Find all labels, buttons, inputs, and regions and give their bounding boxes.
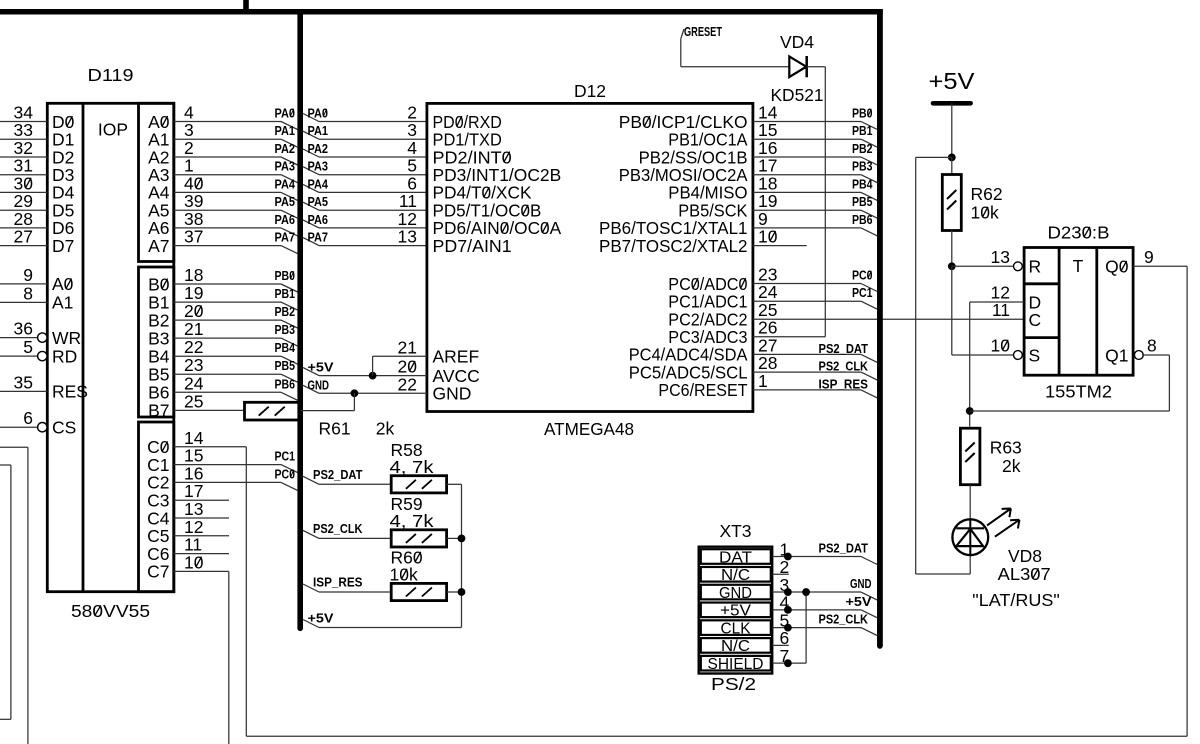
wire top +5V bus stub [243, 0, 249, 12]
bus exit PA1 right [303, 131, 319, 139]
chip D230 divider right [1095, 248, 1098, 376]
wire D119 pin 37 A7 [174, 245, 281, 247]
bus exit PA6 right [303, 220, 319, 228]
svg-text:PA1: PA1 [308, 123, 329, 138]
wire W1 vertical [27, 447, 29, 744]
bus exit PA4 right [303, 184, 319, 192]
svg-text:PB6: PB6 [852, 212, 873, 227]
svg-text:PS2_CLK: PS2_CLK [819, 612, 869, 627]
wire W2 horizontal top [0, 464, 11, 466]
svg-text:9: 9 [1144, 247, 1154, 267]
svg-text:A7: A7 [148, 236, 169, 256]
wire D12 PB0 [753, 121, 861, 123]
wire D119 pin 35 RES [0, 390, 47, 392]
resistor R62 [942, 175, 961, 231]
node junction D/Q1/R63 [966, 407, 974, 415]
svg-text:+5V: +5V [846, 594, 872, 609]
resistor R60 [391, 583, 446, 600]
wire XT3 pin 2 stub [772, 573, 789, 575]
wire D119 C3 stub [174, 499, 229, 501]
wire D119 pin 6 CS [0, 426, 38, 428]
svg-text:RD: RD [52, 346, 77, 366]
svg-text:PB1: PB1 [275, 286, 296, 301]
svg-text:CS: CS [52, 418, 76, 438]
wire +5V to R62 top [951, 157, 953, 175]
wire to D12 pin PD4 [319, 191, 427, 193]
inversion bubble Q1 pin [1134, 351, 1143, 360]
wire D12 PB7 stub [753, 245, 807, 247]
wire D119 C7 horizontal [174, 570, 229, 572]
wire D12 PC3 horizontal [753, 336, 825, 338]
LED VD8 cathode bar [956, 527, 984, 529]
svg-text:N/C: N/C [721, 638, 750, 655]
bus exit PS2_DAT [303, 476, 319, 484]
bus entry A0 [281, 122, 298, 130]
svg-text:+5V: +5V [308, 611, 334, 626]
node pin 1 [784, 553, 792, 561]
bus exit PA2 right [303, 149, 319, 157]
connector XT3 cell +5V [701, 603, 771, 618]
svg-text:PA5: PA5 [275, 194, 296, 209]
wire R62 bottom [951, 230, 953, 266]
svg-text:GND: GND [850, 576, 872, 591]
svg-text:22: 22 [184, 337, 203, 357]
inversion bubble S pin [1014, 351, 1023, 360]
wire XT3 pin 7 SHIELD [772, 662, 806, 664]
bus entry ISP_RES [861, 390, 877, 398]
svg-text:20: 20 [184, 301, 204, 321]
bus entry PS2_DAT [861, 354, 877, 362]
svg-text:PS2_DAT: PS2_DAT [819, 541, 869, 556]
svg-text:PA4: PA4 [275, 176, 296, 191]
svg-text:B0: B0 [148, 274, 170, 294]
wire to D12 pin PD5 [319, 209, 427, 211]
wire D119 pin 9 A0 [0, 283, 47, 285]
node pin 5 [784, 624, 792, 632]
svg-text:WR: WR [52, 328, 81, 348]
bus entry PB4 [861, 192, 877, 200]
wire D119 pin 5 RD [0, 355, 38, 357]
bus entry B1 [281, 302, 298, 310]
svg-text:B2: B2 [148, 310, 169, 330]
connector XT3 cell GND [701, 585, 771, 600]
connector XT3 cell N/C [701, 638, 771, 653]
wire D119 pin 23 B5 [174, 373, 281, 375]
svg-text:11: 11 [992, 300, 1010, 320]
svg-text:22: 22 [398, 374, 417, 394]
wire +5V to AVCC pin 20 [319, 375, 427, 377]
bus exit GND [303, 385, 319, 393]
svg-text:IOP: IOP [98, 120, 128, 140]
wire D119 pin 27 D7 [0, 245, 47, 247]
bus entry B2 [281, 320, 298, 328]
bus entry C1/PC1 [281, 465, 298, 473]
bus entry PC0 [861, 284, 877, 292]
bus exit +5V bottom [303, 620, 319, 628]
svg-text:C: C [1029, 310, 1042, 330]
LED VD8 vertical lead [969, 519, 971, 555]
svg-text:4, 7k: 4, 7k [390, 457, 434, 477]
wire D119 pin 32 D2 [0, 156, 47, 158]
svg-text:27: 27 [14, 227, 33, 247]
wire R60 right lead [447, 591, 462, 593]
svg-text:B6: B6 [148, 383, 169, 403]
svg-text:1: 1 [758, 371, 768, 391]
wire XT3 pin 6 stub [772, 644, 789, 646]
svg-text:4, 7k: 4, 7k [390, 511, 434, 531]
wire R61 right lead under bus [299, 410, 354, 412]
wire PC3 vertical to VD4 [824, 67, 826, 337]
bus entry PB3 [861, 175, 877, 183]
wire left branch vertical down [915, 157, 917, 574]
svg-text:PB7/TOSC2/XTAL2: PB7/TOSC2/XTAL2 [599, 236, 748, 256]
bus entry B3 [281, 338, 298, 346]
svg-text:PA6: PA6 [275, 212, 296, 227]
wire GRESET leader slant [681, 29, 684, 39]
svg-text:PB5: PB5 [852, 194, 873, 209]
chip D119 internal divider [82, 103, 85, 591]
svg-text:24: 24 [184, 373, 204, 393]
wire XT3 pin 1 [772, 556, 861, 558]
wire D119 C7 vertical to bottom [228, 571, 230, 744]
wire D12 PB5 [753, 209, 861, 211]
chip D230 divider left [1058, 248, 1061, 376]
wire D119 pin 33 D1 [0, 138, 47, 140]
bus entry PB1 [861, 139, 877, 147]
svg-text:2k: 2k [376, 419, 395, 439]
inversion bubble WR [38, 333, 47, 342]
wire D119 pin 31 D3 [0, 174, 47, 176]
bus exit +5V [303, 368, 319, 376]
wire D119 C6 stub [174, 553, 229, 555]
wire ISP_RES to R60 [319, 591, 391, 593]
bus entry PS2_CLK [861, 372, 877, 380]
bus entry A7 [281, 246, 298, 254]
svg-text:D7: D7 [52, 236, 74, 256]
diode VD4 cathode bar [805, 56, 808, 77]
svg-text:VD8: VD8 [1008, 546, 1042, 566]
svg-text:PA4: PA4 [308, 176, 329, 191]
svg-text:D230:B: D230:B [1048, 223, 1110, 243]
wire XT3 pin 4 [772, 609, 861, 611]
wire Q0 vertical down [1186, 266, 1188, 736]
bus entry PB2 [861, 157, 877, 165]
svg-text:ATMEGA48: ATMEGA48 [544, 419, 634, 439]
inversion bubble R pin [1014, 262, 1023, 271]
wire R63 to LED [969, 485, 971, 520]
svg-text:B5: B5 [148, 365, 169, 385]
wire D119 C4 stub [174, 517, 229, 519]
svg-text:GND: GND [308, 377, 330, 392]
wire W1 horizontal [0, 446, 28, 448]
wire D119 pin 19 B1 [174, 301, 281, 303]
wire PS2_DAT to R58 [319, 483, 391, 485]
wire Q1 vertical [1168, 355, 1170, 411]
svg-text:R: R [1029, 257, 1042, 277]
svg-text:PC1: PC1 [275, 449, 296, 464]
wire to D12 pin PD1 [319, 138, 427, 140]
wire D119 pin 3 A1 [174, 138, 281, 140]
wire to R pin bubble [952, 265, 1014, 267]
LED arrow 1 [987, 509, 1011, 526]
wire D119 pin 22 B4 [174, 355, 281, 357]
wire D119 pin 28 D6 [0, 227, 47, 229]
wire D12 PC4/ADC4/SDA [753, 353, 861, 355]
wire to D12 pin PD7 [319, 245, 427, 247]
svg-text:PB4: PB4 [852, 176, 873, 191]
svg-text:19: 19 [184, 283, 203, 303]
svg-text:PC1: PC1 [852, 285, 873, 300]
svg-text:RES: RES [52, 382, 88, 402]
svg-text:PB4: PB4 [275, 340, 296, 355]
svg-text:2k: 2k [1002, 456, 1021, 476]
node pin 3 [784, 588, 792, 596]
wire XT3 pin 5 [772, 627, 861, 629]
svg-text:21: 21 [398, 337, 417, 357]
bus entry PB0 [861, 122, 877, 130]
wire D119 pin 25 B7 to R61 [174, 409, 245, 411]
resistor R59 [391, 530, 446, 547]
bus entry PB6 [861, 228, 877, 236]
node junction rail/R60 [458, 588, 466, 596]
wire D119 pin 38 A6 [174, 227, 281, 229]
wire D119 pin 39 A5 [174, 209, 281, 211]
bus vertical line 2 [877, 9, 883, 646]
wire rail bottom to +5V [319, 627, 462, 629]
svg-text:Q1: Q1 [1105, 345, 1128, 365]
wire D12 PC5/ADC5/SCL [753, 371, 861, 373]
connector XT3 cell CLK [701, 620, 771, 635]
wire junction up to AREF row [372, 356, 374, 375]
chip D230:B outline [1024, 248, 1133, 376]
bus exit PA7 right [303, 238, 319, 246]
svg-text:"LAT/RUS": "LAT/RUS" [972, 590, 1060, 610]
wire D119 pin 8 A1 [0, 301, 47, 303]
wire VD4 cathode to corner [807, 66, 826, 68]
svg-text:PS2_CLK: PS2_CLK [313, 521, 363, 536]
svg-text:GND: GND [719, 585, 752, 602]
wire LED bottom lead [969, 555, 971, 574]
wire to D12 pin PD6 [319, 227, 427, 229]
wire XT3 pin 3 [772, 591, 861, 593]
wire D12 PB3 [753, 174, 861, 176]
bus entry B5 [281, 374, 298, 382]
wire D119 pin 4 A0 [174, 121, 281, 123]
svg-text:PC6/RESET: PC6/RESET [658, 380, 747, 400]
svg-text:PB6: PB6 [275, 376, 296, 391]
wire D119 C5 stub [174, 535, 229, 537]
bus entry +5V from XT3 [861, 610, 877, 618]
svg-text:PA7: PA7 [308, 230, 329, 245]
svg-text:PS2_DAT: PS2_DAT [819, 341, 869, 356]
LED arrow 2 [995, 520, 1020, 537]
svg-text:6: 6 [23, 408, 33, 428]
wire AREF pin 21 [373, 355, 427, 357]
svg-text:13: 13 [991, 247, 1010, 267]
svg-text:ISP_RES: ISP_RES [313, 575, 363, 590]
svg-text:ISP_RES: ISP_RES [819, 376, 869, 391]
node pin 7 [784, 659, 792, 667]
node junction +5V [948, 154, 956, 162]
bus entry B4 [281, 356, 298, 364]
wire D12 PC2 to D230 C pin [753, 318, 1024, 320]
node junction GND/R61 [351, 389, 359, 397]
wire D119 pin 34 D0 [0, 121, 47, 123]
wire D119 C0 vertical down [245, 447, 247, 736]
svg-text:DAT: DAT [719, 549, 752, 566]
wire to S pin bubble [952, 354, 1014, 356]
svg-text:PA7: PA7 [275, 230, 296, 245]
wire bottom horizontal C0 to Q0 [246, 735, 1187, 737]
svg-text:Q0: Q0 [1105, 257, 1129, 277]
svg-text:D119: D119 [88, 65, 134, 85]
diode VD4 triangle [789, 56, 806, 77]
svg-text:PA2: PA2 [308, 141, 329, 156]
svg-text:VD4: VD4 [780, 32, 814, 52]
node junction rail/R59 [458, 535, 466, 543]
svg-text:PB5: PB5 [275, 358, 296, 373]
svg-text:PA5: PA5 [308, 194, 329, 209]
svg-text:PS/2: PS/2 [711, 674, 756, 694]
wire D119 pin 24 B6 [174, 391, 281, 393]
wire D12 PB1 [753, 138, 861, 140]
svg-text:R62: R62 [971, 184, 1003, 204]
wire D119 pin 29 D5 [0, 209, 47, 211]
svg-text:S: S [1029, 345, 1041, 365]
svg-text:+5V: +5V [929, 68, 976, 94]
wire R58 right lead [447, 483, 462, 485]
svg-text:+5V: +5V [720, 603, 751, 620]
svg-text:KD521: KD521 [771, 85, 824, 105]
wire D119 C1 [174, 464, 281, 466]
wire R61 up to GND junction [353, 393, 355, 410]
svg-text:9: 9 [23, 265, 33, 285]
svg-text:13: 13 [398, 227, 417, 247]
wire D feedback vertical [969, 302, 971, 427]
wire D119 pin 40 A4 [174, 191, 281, 193]
wire D119 pin 30 D4 [0, 191, 47, 193]
connector XT3 cell DAT [701, 549, 771, 564]
wire R62 junction down to S row [951, 266, 953, 355]
bus entry A1 [281, 139, 298, 147]
svg-text:C7: C7 [147, 562, 169, 582]
svg-text:10: 10 [758, 227, 778, 247]
wire Q1 out [1143, 354, 1169, 356]
svg-text:PB3: PB3 [275, 322, 296, 337]
wire PS2_CLK to R59 [319, 537, 391, 539]
wire GRESET to VD4 anode [681, 66, 790, 68]
svg-text:PB1: PB1 [852, 123, 873, 138]
node junction AREF/AVCC [369, 372, 377, 380]
svg-text:AL307: AL307 [998, 564, 1051, 584]
wire D12 PC0/ADC0 [753, 283, 861, 285]
wire D12 PB4 [753, 191, 861, 193]
svg-text:N/C: N/C [721, 567, 750, 584]
svg-text:B7: B7 [148, 401, 169, 421]
wire SHIELD to GND vertical [805, 592, 807, 663]
svg-text:PA6: PA6 [308, 212, 329, 227]
wire D119 pin 1 A3 [174, 174, 281, 176]
svg-text:B4: B4 [148, 347, 170, 367]
svg-text:AREF: AREF [433, 347, 480, 367]
svg-text:580VV55: 580VV55 [71, 601, 150, 621]
bus exit ISP_RES [303, 584, 319, 592]
svg-text:23: 23 [184, 355, 203, 375]
wire GND to pin 22 [319, 392, 427, 394]
wire R59 right lead [447, 537, 462, 539]
wire W2 vertical [10, 465, 12, 719]
svg-text:37: 37 [184, 227, 203, 247]
svg-text:A1: A1 [52, 293, 73, 313]
bus entry A5 [281, 210, 298, 218]
svg-text:CLK: CLK [721, 620, 751, 637]
connector XT3 outline [699, 547, 773, 674]
bus exit PA5 right [303, 202, 319, 210]
bus entry B6 [281, 392, 298, 400]
bus entry PS2_CLK from XT3 [861, 628, 877, 636]
bus entry C2/PC0 [281, 482, 298, 490]
resistor R61 [245, 402, 300, 420]
bus exit PS2_CLK [303, 530, 319, 538]
svg-text:PB2: PB2 [275, 304, 296, 319]
svg-text:10: 10 [991, 336, 1011, 356]
wire to D12 pin PD3 [319, 174, 427, 176]
power +5V bar symbol [933, 101, 971, 106]
svg-text:GRESET: GRESET [684, 24, 722, 39]
wire D119 pin 20 B2 [174, 319, 281, 321]
bus exit PA0 right [303, 114, 319, 122]
bus entry PC1 [861, 301, 877, 309]
wire +5V down [951, 103, 953, 157]
inversion bubble RD [38, 351, 47, 360]
svg-text:PA3: PA3 [275, 159, 296, 174]
wire D119 pin 18 B0 [174, 283, 281, 285]
wire D119 pin 2 A2 [174, 156, 281, 158]
svg-text:PD7/AIN1: PD7/AIN1 [433, 236, 512, 256]
bus entry A6 [281, 228, 298, 236]
svg-text:XT3: XT3 [719, 521, 751, 541]
resistor R58 [391, 476, 446, 493]
LED VD8 triangle [956, 529, 983, 546]
wire GRESET vertical [680, 39, 682, 67]
bus entry A2 [281, 157, 298, 165]
svg-text:PA3: PA3 [308, 159, 329, 174]
bus vertical line 2 overlay [877, 9, 883, 646]
bus entry PS2_DAT from XT3 [861, 557, 877, 565]
bus exit PA3 right [303, 167, 319, 175]
svg-text:25: 25 [184, 391, 203, 411]
chip D12 ATMEGA48 outline [427, 103, 753, 411]
bus vertical line 1 [297, 9, 303, 628]
wire D12 PB6 [753, 227, 861, 229]
wire W2 horizontal bottom [0, 718, 11, 720]
bus entry GND from XT3 [861, 592, 877, 600]
svg-text:18: 18 [184, 265, 203, 285]
wire D119 C0 horizontal [174, 446, 247, 448]
svg-text:10: 10 [184, 552, 204, 572]
chip D230 cell divider C/S [1024, 336, 1059, 339]
wire D119 C2 [174, 481, 281, 483]
svg-text:GND: GND [433, 384, 472, 404]
wire D pin [970, 301, 1024, 303]
wire top horizontal bus [0, 9, 883, 15]
bus entry PB5 [861, 210, 877, 218]
svg-text:R61: R61 [319, 419, 351, 439]
svg-text:T: T [1073, 256, 1084, 276]
chip D119 580VV55 outline [47, 103, 174, 591]
bus entry A3 [281, 175, 298, 183]
bus entry A4 [281, 192, 298, 200]
